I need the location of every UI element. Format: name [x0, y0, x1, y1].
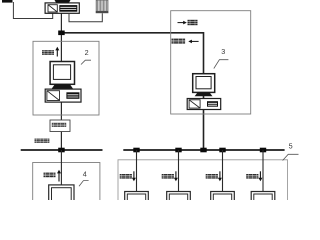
device D2 — [167, 192, 191, 204]
arrow up in box 2 — [56, 49, 58, 57]
device D0 in box 4 — [49, 185, 74, 202]
label: data text device 3 — [206, 174, 210, 179]
right fieldbus line — [123, 149, 284, 151]
arrow down device 1 — [133, 171, 135, 179]
svg-text:4: 4 — [83, 170, 87, 179]
arrow up in box 4 — [58, 172, 60, 182]
junction node on right bus 1 — [133, 148, 139, 153]
computer 3 icon — [193, 74, 215, 93]
junction node J1 — [58, 31, 64, 36]
label: fieldbus name — [35, 139, 39, 143]
device D3 — [211, 192, 235, 204]
svg-text:5: 5 — [289, 141, 293, 150]
wire: server 1 stub to server case — [13, 2, 52, 19]
svg-text:2: 2 — [85, 48, 89, 57]
left fieldbus line — [21, 149, 103, 151]
wire bus to device in box 4 — [60, 150, 62, 185]
comm module box — [50, 120, 70, 132]
label: data text device 2 — [162, 174, 166, 179]
arrow down device 2 — [175, 171, 177, 179]
device D1 — [125, 192, 149, 204]
arrow down device 3 — [219, 171, 221, 179]
wire: server down to ethernet bus junction — [60, 13, 62, 33]
workstation 2 computer icon — [50, 62, 74, 85]
server U1 system case — [45, 3, 79, 13]
box 4: local device enclosure — [33, 163, 100, 208]
wire: vertical trunk through workstation 2 down to left bus — [60, 33, 62, 150]
label: data text in box 4 — [44, 173, 48, 178]
printer P1 — [96, 0, 108, 11]
svg-text:3: 3 — [221, 47, 225, 56]
text row 2 + arrow left in box 3 — [172, 39, 177, 44]
box 2: workstation enclosure — [33, 41, 99, 115]
junction node on right bus 4 — [260, 148, 266, 153]
device D4 — [251, 192, 275, 204]
box 3: remote computer enclosure — [171, 11, 251, 114]
wire: server case to printer — [69, 13, 102, 22]
arrow right + text row 1 in box 3 — [178, 22, 184, 24]
wire bus to device 4 — [262, 150, 264, 192]
junction node on right bus 2 — [175, 148, 181, 153]
label: data text in box 2 — [42, 50, 46, 55]
label: data text device 1 — [120, 174, 124, 179]
wire bus to device 1 — [136, 150, 138, 192]
wire bus to device 2 — [178, 150, 180, 192]
junction node J3 computer3 drop — [200, 148, 206, 153]
wire bus to device 3 — [222, 150, 224, 192]
server U1 monitor base (cut) — [55, 0, 71, 3]
junction node J2 — [58, 148, 64, 153]
node: operator station stub (cut) — [2, 0, 13, 3]
junction node on right bus 3 — [219, 148, 225, 153]
box 5: field device group enclosure — [118, 160, 288, 205]
wire: top bus across to computer 3 — [61, 33, 203, 150]
arrow down device 4 — [259, 171, 261, 179]
label: data text device 4 — [246, 174, 250, 179]
